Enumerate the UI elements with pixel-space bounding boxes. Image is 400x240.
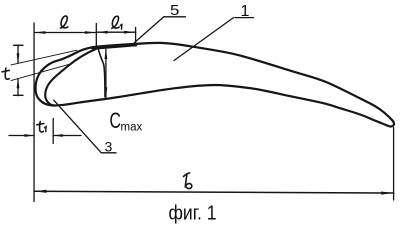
underline of 3 (101, 152, 116, 154)
dimension line t upper segment (17, 45, 19, 63)
extension line trailing edge x=393.6 (393, 128, 395, 201)
svg-text:1: 1 (241, 3, 250, 20)
arrowhead b left (35, 190, 47, 193)
underline of 5 (164, 16, 186, 18)
arrowhead t up (17, 78, 20, 88)
extension line leading edge x=34 (33, 23, 35, 202)
dimension line t lower segment (17, 79, 19, 96)
arrowhead Cmax down (105, 87, 108, 97)
airfoil profile outer contour (element 1) (36, 43, 395, 127)
label t (2, 68, 9, 79)
arrowhead t down (17, 53, 20, 63)
svg-text:max: max (121, 122, 143, 134)
extension line step divider x=96.3 (95, 24, 97, 47)
svg-text:5: 5 (170, 2, 179, 19)
svg-text:C: C (110, 109, 122, 133)
arrowhead Cmax up (105, 49, 108, 59)
dimension line t1 left segment (9, 135, 34, 137)
label t1 (37, 122, 46, 132)
subscript 1 of l1 (120, 24, 122, 29)
dimension line l (34, 32, 96, 34)
dimension line Cmax (105, 49, 107, 97)
arrowhead l1 right (124, 31, 135, 34)
serif tick t bottom (14, 94, 24, 96)
dimension line b (34, 191, 394, 193)
arrowhead t1 right-pointing (25, 134, 35, 137)
body front face step (98, 47, 105, 97)
leader line for 3 (54, 100, 102, 153)
underline of 1 (235, 17, 254, 19)
leader line for 5 (132, 17, 164, 45)
arrowhead l left (35, 31, 46, 34)
extension line bar right end x=135.6 (135, 28, 137, 47)
label letter l (script ell) (60, 16, 67, 28)
svg-text:3: 3 (105, 139, 113, 155)
arrowhead l1 left (97, 31, 108, 34)
svg-text:фиг. 1: фиг. 1 (169, 203, 217, 225)
serif tick t top (14, 44, 24, 46)
leader line for 1 (174, 18, 234, 61)
arrowhead l right (85, 31, 96, 34)
t tangent extension lower (11, 64, 71, 81)
label letter b (chord) (184, 173, 192, 189)
extension line t1 right x=53.2 (52, 119, 54, 144)
t tangent extension upper (11, 50, 77, 65)
dimension line t1 right segment (53, 135, 81, 137)
slot inner wall curve (element 3) (45, 49, 96, 106)
label letter l1 (script ell) (112, 16, 119, 28)
arrowhead t1 left-pointing (53, 134, 63, 137)
dimension line l1 (96, 31, 135, 33)
cover plate thick bar (element 5) (93, 45, 136, 48)
arrowhead b right (381, 192, 393, 195)
